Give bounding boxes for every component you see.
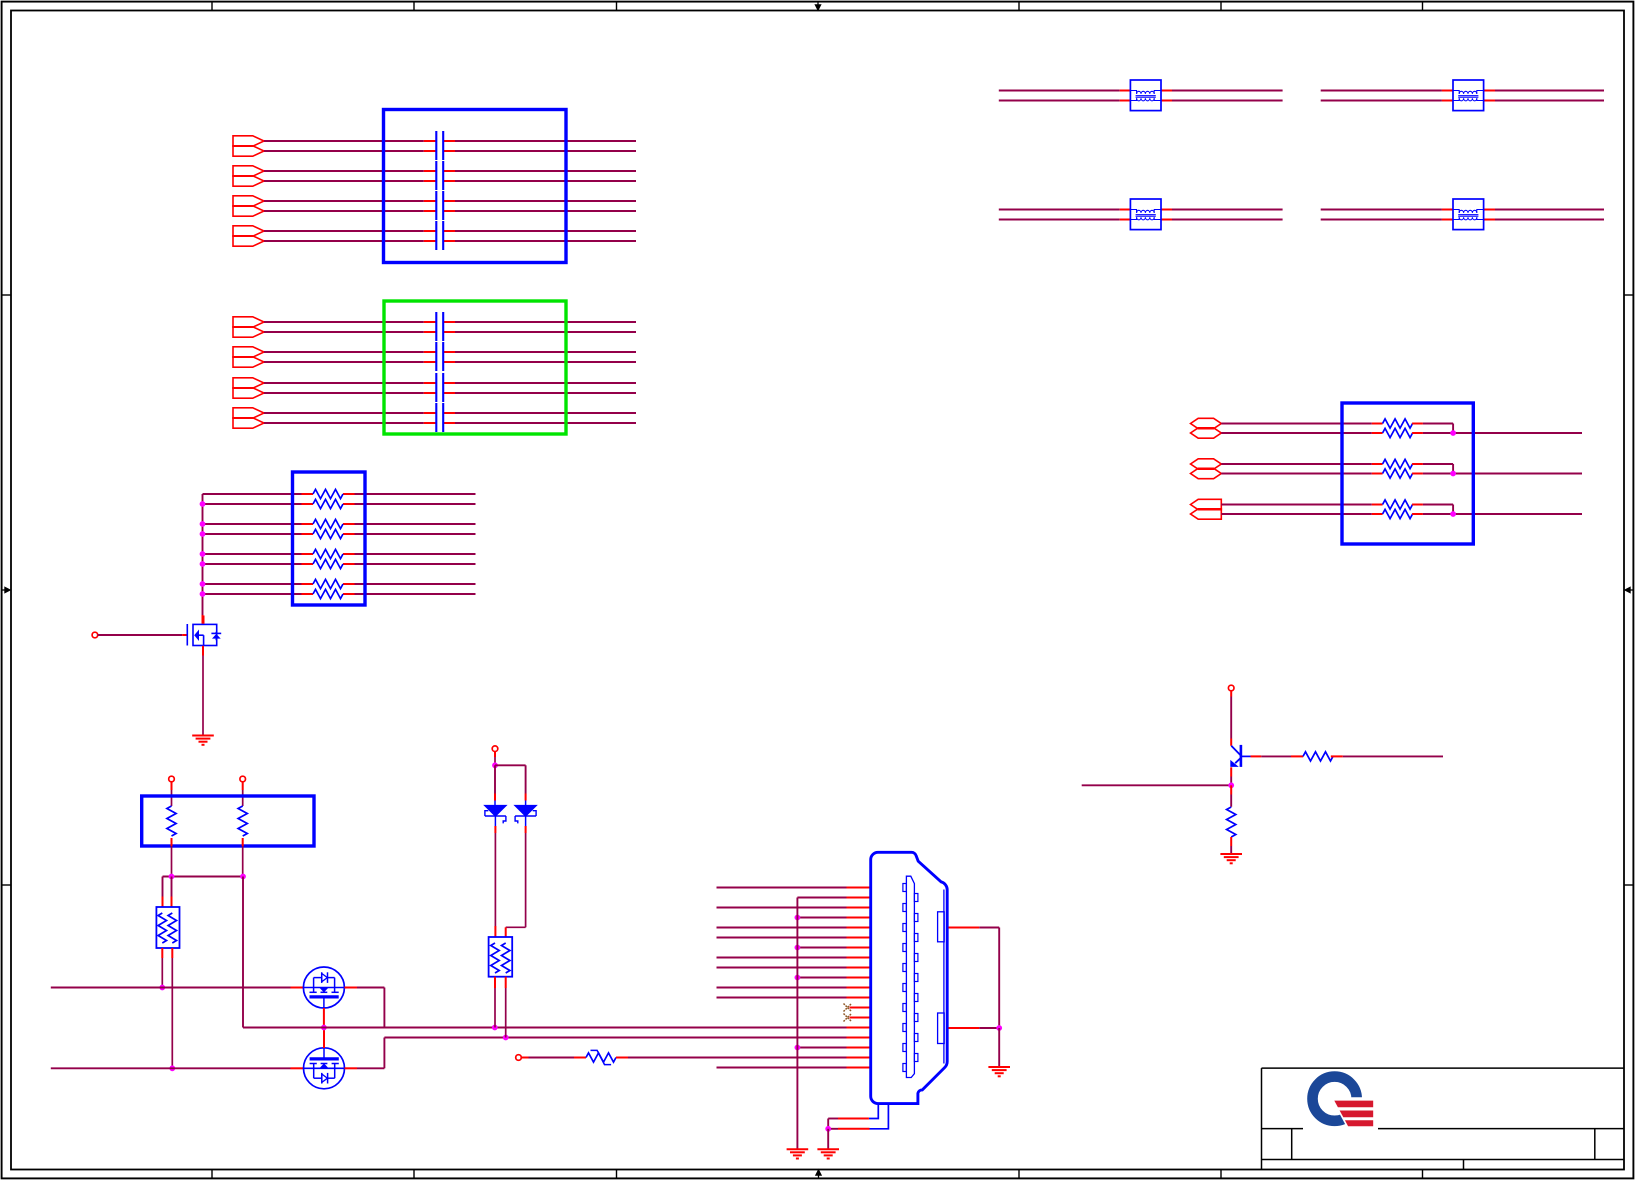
- wire HDMI pin4: [797, 917, 846, 919]
- capacitor C1c: [435, 191, 437, 220]
- inductor L3 (common-mode choke): [1130, 199, 1161, 230]
- capacitor pack U2 (green box): [384, 301, 566, 434]
- junction: [795, 975, 801, 981]
- frame arrow top: [815, 2, 821, 11]
- terminal VCC2: [240, 776, 246, 782]
- wire: [161, 948, 163, 958]
- wire HDMI pin5: [717, 927, 847, 929]
- resistor RT2b: [1383, 469, 1413, 478]
- wire column to gate junction: [242, 877, 244, 1028]
- transistor Q4 (PNP): [1230, 745, 1250, 767]
- pin 5 contact: [903, 924, 907, 932]
- junction: [996, 1025, 1002, 1031]
- wire L4 in-: [1321, 219, 1442, 221]
- wire HDMI pin12: [717, 997, 847, 999]
- wire L2 out+: [1484, 90, 1495, 92]
- wire L1 in+: [999, 90, 1120, 92]
- junction: [492, 762, 498, 768]
- wire L3 in+: [999, 209, 1120, 211]
- wire: [443, 321, 455, 323]
- wire: [1412, 504, 1423, 506]
- port P2a- (bus entry): [233, 327, 264, 337]
- wire: [505, 977, 507, 988]
- wire drain stub: [203, 616, 205, 624]
- resistor RT1b: [1383, 428, 1413, 437]
- logo stripes: [1334, 1101, 1373, 1108]
- wire to ground: [1230, 837, 1232, 846]
- pin 18 contact: [914, 1054, 918, 1062]
- wire: [521, 1057, 528, 1059]
- wire HDMI pin6: [717, 937, 847, 939]
- port P2a+ (bus entry): [233, 317, 264, 327]
- port P1d- (bus entry): [233, 236, 264, 246]
- wire HDMI pin3: [717, 907, 847, 909]
- frame arrow right: [1625, 587, 1634, 593]
- wire: [1221, 504, 1372, 506]
- pin 7 contact: [903, 944, 907, 952]
- wire: [242, 838, 244, 846]
- wire D2 cathode: [525, 816, 527, 826]
- wire input B: [51, 1067, 291, 1069]
- resistor RN2a: [167, 806, 176, 836]
- wire R3 row7 right: [343, 583, 355, 585]
- wire: [264, 180, 424, 182]
- wire HDMI pin8: [717, 957, 847, 959]
- wire: [162, 877, 164, 897]
- junction: [795, 915, 801, 921]
- wire: [443, 392, 455, 394]
- port P1c- (bus entry): [233, 206, 264, 216]
- frame ticks top: [211, 2, 213, 11]
- junction: [200, 501, 206, 507]
- wire: [443, 361, 455, 363]
- frame ticks left: [3, 294, 12, 296]
- resistor RN1h: [313, 589, 343, 598]
- wire: [443, 422, 455, 424]
- resistor RN3a: [158, 913, 166, 943]
- wire: [443, 351, 455, 353]
- wire R3 row2 left: [203, 503, 302, 505]
- wire: [264, 382, 424, 384]
- wire: [264, 412, 424, 414]
- pin 19 contact: [903, 1064, 907, 1072]
- capacitor C1a: [435, 131, 437, 160]
- resistor RN1f: [313, 559, 343, 568]
- wire pin19: [717, 1067, 847, 1069]
- resistor RN1e: [313, 549, 343, 558]
- ground: [1220, 853, 1242, 855]
- connector J1 blade: [906, 876, 914, 1077]
- resistor RN4b: [502, 943, 510, 973]
- wire R3 row5 left: [203, 553, 302, 555]
- pin 9 contact: [903, 964, 907, 972]
- port P1a- (bus entry): [233, 146, 264, 156]
- inductor L2 (common-mode choke): [1453, 80, 1484, 111]
- diode D2 (TVS): [515, 806, 536, 816]
- pin 11 contact: [903, 984, 907, 992]
- wire: [443, 150, 455, 152]
- wire HDMI pin1: [717, 887, 847, 889]
- wire L2 in+: [1321, 90, 1442, 92]
- wire HDMI pin9: [717, 967, 847, 969]
- resistor RN4a: [491, 943, 499, 973]
- terminal (gate input): [92, 632, 98, 638]
- port PR1+: [1191, 418, 1222, 428]
- resistor RN1b: [313, 499, 343, 508]
- junction: [1228, 782, 1234, 788]
- resistor pack RN4 (dual): [489, 937, 513, 977]
- port P1a+ (bus entry): [233, 136, 264, 146]
- wire L1 out-: [1161, 100, 1172, 102]
- wire D1 cathode: [494, 816, 496, 826]
- wire HDMI bottom pin B: [870, 1104, 889, 1129]
- wire collector: [1230, 691, 1232, 697]
- wire L2 in-: [1321, 100, 1442, 102]
- frame arrow bottom: [816, 1170, 822, 1178]
- port PR1-: [1191, 428, 1222, 438]
- node bus vertical: [202, 494, 204, 615]
- pin 12 contact: [914, 994, 918, 1002]
- logo ring: [1313, 1077, 1357, 1121]
- wire B to HDMI pin16: [384, 1037, 846, 1039]
- terminal VCC3: [492, 746, 498, 752]
- wire: [242, 782, 244, 790]
- resistor RT1a: [1383, 419, 1413, 428]
- wire shield upper: [949, 927, 980, 929]
- resistor pack RN2 (blue box): [142, 796, 314, 846]
- wire base: [1251, 755, 1262, 757]
- junction: [200, 591, 206, 597]
- diode D1 (TVS): [485, 806, 506, 816]
- wire: [1221, 463, 1372, 465]
- no-connect pin14: [850, 1017, 872, 1019]
- wire shield lower: [949, 1027, 980, 1029]
- wire Q3 right jog: [345, 1067, 358, 1069]
- wire L1 out+: [1161, 90, 1172, 92]
- junction: [200, 561, 206, 567]
- connector J1 inner wall: [943, 890, 945, 1064]
- wire: [443, 331, 455, 333]
- frame arrow left: [2, 587, 11, 593]
- pin 2 contact: [914, 894, 918, 902]
- resistor pack RN5 (blue box): [1342, 403, 1473, 544]
- wire: [171, 877, 173, 897]
- pin 16 contact: [914, 1034, 918, 1042]
- wire: [1221, 473, 1372, 475]
- wire R3 row4 right: [343, 533, 355, 535]
- wire HDMI pin17: [797, 1047, 846, 1049]
- resistor RN1d: [313, 529, 343, 538]
- transistor Q1 (N-MOSFET): [187, 624, 221, 646]
- junction: [200, 531, 206, 537]
- wire R3 row7 left: [203, 583, 302, 585]
- wire R3 row3 left: [203, 523, 302, 525]
- transistor Q3 (P-MOSFET, circled): [304, 1048, 345, 1089]
- wire: [264, 422, 424, 424]
- wire: [443, 210, 455, 212]
- wire: [264, 392, 424, 394]
- wire Q2 gate stub: [323, 1008, 325, 1028]
- junction: [795, 945, 801, 951]
- port PR2-: [1191, 468, 1222, 478]
- logo ring cutout: [1331, 1097, 1367, 1131]
- title block: [1262, 1068, 1625, 1169]
- pin 14 contact: [914, 1014, 918, 1022]
- wire: [1412, 473, 1423, 475]
- wire: [264, 240, 424, 242]
- wire: [264, 321, 424, 323]
- wire: [494, 977, 496, 988]
- wire emitter: [1230, 767, 1232, 776]
- wire: [1221, 423, 1372, 425]
- resistor pack RN3 (dual): [156, 907, 179, 948]
- wire R3 row5 right: [343, 553, 355, 555]
- junction: [1450, 430, 1456, 436]
- frame ticks bottom: [211, 1170, 213, 1179]
- wire: [1221, 513, 1372, 515]
- wire: [494, 752, 496, 758]
- wire L1 in-: [999, 100, 1120, 102]
- junction: [503, 1035, 509, 1041]
- junction: [240, 874, 246, 880]
- wire Q2 right jog: [344, 987, 357, 989]
- port PR3-: [1191, 509, 1222, 519]
- pin 17 contact: [903, 1044, 907, 1052]
- capacitor C2a: [435, 312, 437, 341]
- resistor RT3a: [1383, 500, 1413, 509]
- ground: [817, 1148, 839, 1150]
- wire R3 row1 right: [343, 493, 355, 495]
- junction: [159, 985, 165, 991]
- wire tie row: [163, 876, 244, 878]
- wire: [264, 200, 424, 202]
- wire L3 in-: [999, 219, 1120, 221]
- pin 8 contact: [914, 954, 918, 962]
- connector J1 shield tab lower: [938, 1013, 945, 1044]
- pin 10 contact: [914, 974, 918, 982]
- junction: [169, 874, 175, 880]
- wire: [443, 240, 455, 242]
- resistor RN1c: [313, 519, 343, 528]
- wire R3 row6 left: [203, 563, 302, 565]
- wire: [443, 140, 455, 142]
- wire L4 in+: [1321, 209, 1442, 211]
- logo background: [1303, 1070, 1378, 1132]
- capacitor C2d: [435, 403, 437, 432]
- wire emitter node: [1082, 784, 1232, 786]
- wire L3 out-: [1161, 219, 1172, 221]
- resistor R11: [1227, 807, 1236, 837]
- ground: [988, 1066, 1010, 1068]
- wire: [1412, 432, 1423, 434]
- resistor RN3b: [168, 913, 176, 943]
- port PR3+: [1191, 499, 1222, 509]
- connector J1 shield tab upper: [938, 912, 945, 942]
- inductor L4 (common-mode choke): [1453, 199, 1484, 230]
- wire: [1412, 423, 1423, 425]
- wire L4 out+: [1484, 209, 1495, 211]
- port P1b+ (bus entry): [233, 166, 264, 176]
- port P2d+ (bus entry): [233, 408, 264, 418]
- wire gate: [98, 634, 183, 636]
- junction: [200, 521, 206, 527]
- capacitor pack U1 (blue box): [384, 110, 567, 263]
- wire R3 row8 left: [203, 593, 302, 595]
- port P2c- (bus entry): [233, 388, 264, 398]
- wire: [264, 351, 424, 353]
- pin 1 contact: [903, 884, 907, 892]
- resistor RN1a: [313, 489, 343, 498]
- junction: [825, 1126, 831, 1132]
- wire: [616, 1057, 628, 1059]
- wire A to HDMI pin15: [243, 1027, 847, 1029]
- junction: [200, 551, 206, 557]
- wire R3 row2 right: [343, 503, 355, 505]
- wire: [1412, 513, 1423, 515]
- wire HDMI pin7: [797, 947, 846, 949]
- wire L4 out-: [1484, 219, 1495, 221]
- port P1d+ (bus entry): [233, 226, 264, 236]
- wire branch: [495, 764, 526, 766]
- no-connect pin13: [850, 1007, 872, 1009]
- wire: [443, 170, 455, 172]
- resistor pack RN1 (blue box): [293, 472, 366, 605]
- pin 13 contact: [903, 1004, 907, 1012]
- wire: [1412, 463, 1423, 465]
- resistor RN2b: [238, 806, 247, 836]
- wire: [264, 150, 424, 152]
- resistor RT2a: [1383, 459, 1413, 468]
- port P2c+ (bus entry): [233, 378, 264, 388]
- wire source to ground: [202, 646, 204, 656]
- frame ticks right: [1624, 294, 1633, 296]
- wire HDMI pin11: [717, 987, 847, 989]
- junction: [1450, 471, 1456, 477]
- ground: [192, 735, 214, 737]
- junction: [321, 1025, 327, 1031]
- wire base right: [1331, 755, 1343, 757]
- terminal CEC: [516, 1055, 522, 1061]
- wire HDMI bottom pin A: [869, 1104, 878, 1119]
- wire HDMI pin2: [797, 897, 846, 899]
- pin 6 contact: [914, 934, 918, 942]
- port PR2+: [1191, 459, 1222, 469]
- wire: [264, 140, 424, 142]
- wire: [443, 200, 455, 202]
- terminal VCC1: [169, 776, 175, 782]
- resistor RT1 (thermistor): [586, 1053, 616, 1062]
- wire input A: [51, 987, 291, 989]
- wire: [171, 838, 173, 846]
- wire: [264, 230, 424, 232]
- port P2b- (bus entry): [233, 357, 264, 367]
- port P1b- (bus entry): [233, 176, 264, 186]
- wire: [443, 180, 455, 182]
- wire R3 row4 left: [203, 533, 302, 535]
- terminal VCC4: [1228, 685, 1234, 691]
- wire R3 row3 right: [343, 523, 355, 525]
- inductor L1 (common-mode choke): [1130, 80, 1161, 111]
- resistor RN1g: [313, 579, 343, 588]
- port P1c+ (bus entry): [233, 196, 264, 206]
- capacitor C2b: [435, 342, 437, 371]
- transistor Q2 (P-MOSFET, circled): [303, 967, 344, 1008]
- wire L2 out-: [1484, 100, 1495, 102]
- resistor RT3b: [1383, 509, 1413, 518]
- pin 4 contact: [914, 914, 918, 922]
- junction: [1450, 511, 1456, 517]
- port P2b+ (bus entry): [233, 347, 264, 357]
- junction: [169, 1065, 175, 1071]
- capacitor C2c: [435, 373, 437, 402]
- capacitor C1d: [435, 221, 437, 250]
- wire: [264, 170, 424, 172]
- wire L3 out+: [1161, 209, 1172, 211]
- capacitor C1b: [435, 161, 437, 190]
- wire Q3 gate stub: [323, 1028, 325, 1049]
- pin 15 contact: [903, 1024, 907, 1032]
- wire: [264, 210, 424, 212]
- wire: [264, 361, 424, 363]
- node ground bus: [796, 898, 798, 1149]
- wire HDMI pin10: [797, 977, 846, 979]
- wire: [1221, 432, 1372, 434]
- pin 3 contact: [903, 904, 907, 912]
- ground: [787, 1148, 809, 1150]
- wire: [443, 382, 455, 384]
- resistor R10: [1303, 752, 1333, 761]
- connector J1 (HDMI) outline: [871, 852, 948, 1103]
- wire to R11: [1230, 785, 1232, 794]
- wire R3 row1 left: [203, 493, 302, 495]
- junction: [492, 1025, 498, 1031]
- wire R3 row6 right: [343, 563, 355, 565]
- wire: [171, 782, 173, 790]
- wire: [264, 331, 424, 333]
- port P2d- (bus entry): [233, 418, 264, 428]
- wire D1 anode: [494, 765, 496, 793]
- junction: [795, 1045, 801, 1051]
- wire: [171, 948, 173, 958]
- wire R3 row8 right: [343, 593, 355, 595]
- wire: [443, 230, 455, 232]
- junction: [200, 581, 206, 587]
- wire to ground: [827, 1129, 829, 1149]
- wire: [443, 412, 455, 414]
- wire shield ground: [998, 1028, 1000, 1067]
- wire D2 anode: [525, 794, 527, 801]
